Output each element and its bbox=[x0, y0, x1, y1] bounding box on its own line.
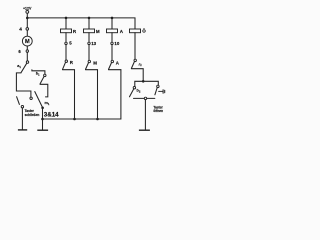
Taster oeffnen actuator bbox=[159, 90, 163, 92]
bottom crossbar to ground bbox=[134, 97, 155, 99]
svg-text:öffnen: öffnen bbox=[153, 109, 163, 113]
contact b2 blade bbox=[130, 89, 134, 97]
junction rail A bbox=[111, 17, 114, 20]
wire contact r to bottom rail bbox=[63, 70, 75, 119]
relay coil R bbox=[65, 18, 67, 29]
terminal on crossbar bbox=[144, 97, 146, 99]
wire contact a to bottom rail corner bbox=[109, 69, 121, 71]
junction bottom R bbox=[73, 118, 76, 121]
contact b1 blade bbox=[40, 77, 44, 84]
wire rail to node 4 bbox=[26, 18, 28, 28]
ground bbox=[139, 129, 150, 131]
contact r1 blade bbox=[131, 62, 134, 68]
junction rail left bbox=[26, 17, 29, 20]
ground bbox=[37, 129, 48, 131]
wire Taster schliessen to ground bbox=[21, 108, 23, 129]
wire coil O to contact r1 bbox=[134, 33, 136, 60]
Taster oeffnen fixed terminal bbox=[157, 85, 159, 87]
node 4 terminal bbox=[26, 28, 29, 31]
bottom rail bbox=[43, 70, 121, 119]
wire a1 to m1 contact (left drop and run right) bbox=[16, 73, 31, 97]
svg-text:10: 10 bbox=[114, 41, 119, 46]
wire contact m to bottom rail bbox=[86, 70, 98, 119]
junction rail M bbox=[88, 17, 91, 20]
contact m fixed terminal bbox=[88, 60, 90, 62]
wire supply to rail bbox=[26, 13, 28, 18]
svg-text:r1: r1 bbox=[139, 62, 142, 67]
svg-text:4: 4 bbox=[19, 26, 22, 32]
b1 branch tap bbox=[32, 70, 45, 74]
junction m1 pivot bbox=[41, 107, 44, 110]
svg-text:+12V: +12V bbox=[23, 7, 32, 11]
wire node 10 to contact a bbox=[111, 45, 113, 61]
relay coil M bbox=[88, 18, 90, 29]
contact b2 fixed terminal bbox=[133, 87, 135, 89]
contact m1 blade bbox=[35, 92, 43, 108]
contact b1 fixed terminal bbox=[44, 74, 46, 76]
Taster oeffnen blade bbox=[155, 88, 157, 95]
contact r blade bbox=[63, 63, 66, 70]
node 13 terminal bbox=[88, 42, 90, 44]
relay coil O bbox=[130, 29, 141, 33]
svg-text:M: M bbox=[25, 39, 30, 45]
junction bottom M bbox=[96, 118, 99, 121]
node 5 terminal bbox=[65, 42, 67, 44]
motor M1 bbox=[22, 36, 32, 46]
contact a blade bbox=[109, 63, 112, 69]
contact r1 fixed terminal bbox=[134, 59, 136, 61]
svg-text:schließen: schließen bbox=[25, 113, 40, 117]
+12V terminal bbox=[26, 11, 29, 14]
Taster schliessen blade bbox=[17, 97, 20, 105]
svg-text:Ö: Ö bbox=[142, 28, 146, 34]
ground bbox=[18, 129, 27, 131]
wire m1 pivot to bottom rail bbox=[42, 108, 44, 119]
wire node 13 to contact m bbox=[88, 45, 90, 61]
svg-text:M: M bbox=[96, 29, 100, 34]
wire b1 output bbox=[40, 84, 48, 97]
contact m1 fixed terminal bbox=[30, 97, 32, 99]
wire node 6 to contact a1 bbox=[26, 52, 28, 61]
junction r1/b2 bbox=[142, 80, 145, 83]
contact a1 fixed terminal bbox=[26, 61, 28, 63]
contact a1 blade bbox=[21, 63, 27, 72]
contact m blade bbox=[86, 63, 89, 69]
svg-text:M: M bbox=[93, 60, 97, 65]
contact a fixed terminal bbox=[111, 60, 113, 62]
wire b2 / taster oeffnen crossbar bbox=[135, 81, 159, 86]
node 6 terminal bbox=[26, 50, 28, 52]
relay coil A bbox=[111, 18, 113, 29]
wire coil R to node 5 bbox=[65, 33, 67, 43]
svg-text:13: 13 bbox=[91, 41, 96, 46]
wire crossbar to ground bbox=[144, 100, 146, 130]
junction rail R bbox=[65, 17, 68, 20]
wire to ground bbox=[42, 119, 44, 130]
wire coil M to node 13 bbox=[88, 33, 90, 43]
top rail bbox=[27, 18, 135, 29]
wire node 4 to motor bbox=[26, 30, 28, 36]
wire coil A to node 10 bbox=[111, 33, 113, 43]
Taster schliessen fixed terminal bbox=[21, 106, 23, 108]
svg-text:3&14: 3&14 bbox=[44, 112, 59, 119]
wire node 5 to contact r bbox=[65, 45, 67, 60]
wire motor to node 6 bbox=[26, 46, 28, 50]
node 10 terminal bbox=[111, 42, 113, 44]
wire contact r1 to node bbox=[131, 69, 143, 82]
junction bottom left bbox=[41, 118, 44, 121]
contact r fixed terminal bbox=[65, 60, 67, 62]
